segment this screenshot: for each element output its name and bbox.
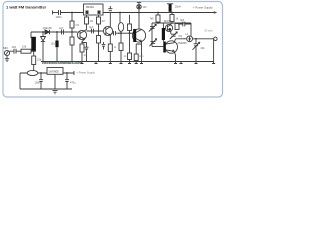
wire top supply rail (103, 12, 215, 14)
wire mic to C6 (10, 50, 14, 52)
wire PSU top rail (20, 72, 74, 74)
resistor R8 (119, 43, 123, 51)
resistor R6 (97, 36, 101, 44)
capacitor C1 (59, 10, 84, 15)
wire R10 to ground (129, 60, 131, 62)
wire Q5 collector output (174, 39, 187, 43)
oscillator pin 2 (98, 15, 100, 17)
inductor L2 (162, 28, 165, 40)
node rail junction 158 (157, 12, 159, 14)
wire R7 to ground (109, 52, 111, 62)
antenna terminal (214, 37, 217, 40)
capacitor C18 (65, 73, 69, 89)
resistor R2 (70, 37, 74, 45)
wire 121 down (120, 33, 122, 43)
resistor R1 (70, 21, 74, 28)
diode D1 (45, 30, 50, 34)
transistor Q5 (165, 41, 177, 53)
microphone MIC1 (4, 50, 9, 55)
svg-text:electronicsmaniacs.com: electronicsmaniacs.com (42, 61, 82, 65)
wire x98.5 vertical (98, 24, 100, 36)
ground stub 82 (81, 62, 84, 64)
node junction 72/12.5 (71, 12, 73, 14)
wire Q2 collector up to rail (109, 13, 111, 27)
wire main ground rail (41, 61, 214, 63)
inductor RFC L3 (169, 4, 172, 12)
coil L4 (187, 36, 193, 42)
capacitor C19 small stub (102, 42, 106, 50)
capacitor C9 on collector top (108, 6, 112, 11)
svg-text:7k5: 7k5 (150, 18, 155, 21)
resistor R14 (175, 24, 179, 30)
node B junction (33, 50, 35, 52)
svg-text:10uH: 10uH (175, 5, 181, 9)
svg-text:103: 103 (51, 43, 56, 46)
wire Q4 collector (170, 23, 172, 25)
svg-text:+ Power Supply: + Power Supply (193, 6, 213, 10)
trimmer C16 (193, 39, 200, 62)
node rail junction 139 (138, 12, 140, 14)
capacitor C2 (polarized dark) (31, 37, 36, 51)
wire Q5 base from L2 (162, 40, 164, 42)
wire audio line (31, 31, 78, 33)
resistor R5 (80, 44, 84, 52)
node rail junction 120 (119, 12, 121, 14)
resistor R3 (21, 49, 31, 53)
wire output line (193, 38, 214, 40)
wire R2 to ground rail (71, 45, 73, 62)
node junction 72/32 (71, 31, 73, 33)
wire R9 down (129, 31, 131, 54)
svg-text:40p: 40p (201, 47, 206, 50)
resistor R11 (134, 54, 138, 61)
resistor R12 (156, 15, 160, 22)
capacitor C8 (92, 29, 94, 34)
svg-text:1N4148: 1N4148 (43, 26, 53, 30)
svg-text:50 ohm: 50 ohm (205, 30, 213, 33)
wire from C1 down to R1 (71, 13, 73, 22)
wire drop from rail at 172 (171, 13, 173, 15)
wire Q2 emitter down (109, 35, 111, 44)
oscillator pin 1 (86, 15, 88, 17)
wire drop from rail at 158 (157, 13, 159, 16)
wire node B down (33, 51, 35, 56)
wire 152 down (151, 23, 153, 47)
trimmer C12 (149, 25, 156, 32)
svg-text:BF494: BF494 (86, 5, 94, 9)
wire top input stub (52, 12, 58, 14)
node junction 57/32 (56, 31, 58, 33)
wire 129 from trimmer down (129, 15, 131, 24)
resistor R16 (97, 17, 101, 24)
ground under mic (5, 56, 9, 62)
wire Q3 collector up to rail (138, 13, 140, 30)
feedthrough choke FB1 (137, 3, 141, 13)
ground stub 96 (95, 62, 98, 64)
node junction 43/32 (42, 31, 44, 33)
trimmer C13 (170, 32, 177, 39)
ground stub 121 (120, 62, 123, 64)
wire PSU ground rail (20, 88, 72, 90)
svg-text:BFR96: BFR96 (164, 20, 172, 23)
svg-text:10n: 10n (143, 6, 148, 9)
ground stub 175 (174, 62, 177, 64)
wire L1 down (118, 31, 121, 33)
ground stub 196 (195, 62, 198, 64)
inductor L1 (119, 13, 121, 23)
svg-text:10k: 10k (22, 45, 27, 49)
resistor R4 (32, 56, 36, 65)
capacitor C10 (112, 31, 118, 35)
resistor R13 (170, 15, 174, 22)
transistor Q4 (165, 24, 172, 31)
node junction 41/73 (40, 72, 42, 74)
node junction 196 (195, 38, 197, 40)
oscillator inner pads (86, 11, 89, 14)
wire R6 to ground (98, 43, 100, 62)
node junction 121 (120, 32, 122, 34)
node junction x98.5 (98, 30, 100, 32)
svg-text:1 watt FM transmitter: 1 watt FM transmitter (6, 4, 47, 9)
wire osc tank link (118, 32, 134, 34)
wire link y23 right (152, 22, 191, 24)
wire Q3 emitter branch (136, 44, 141, 54)
node junction 67/73 (66, 72, 68, 74)
wire R5 to ground (81, 52, 83, 62)
svg-text:+ Power Supply: + Power Supply (77, 70, 96, 74)
ground stub 213 (212, 62, 215, 64)
fuse F1 (27, 70, 38, 75)
ground stub 181 (180, 62, 183, 64)
wire R1 to node A (71, 28, 73, 37)
svg-text:470u: 470u (70, 82, 76, 85)
capacitor C4 electrolytic branch (56, 32, 58, 41)
capacitor C7 (85, 47, 89, 61)
wire Q4 emitter (170, 31, 172, 34)
wire R3 to node B (31, 50, 36, 52)
wire emitter bypass branch (82, 43, 87, 48)
wire R4 down to PSU rail (33, 65, 35, 72)
PSU plus terminal (73, 71, 75, 75)
ground stub 141 (140, 62, 143, 64)
transistor Q3 (132, 29, 145, 42)
svg-text:104: 104 (12, 45, 17, 49)
svg-text:4p7: 4p7 (89, 25, 94, 29)
transistor Q2 (103, 26, 112, 35)
svg-text:10n: 10n (139, 55, 144, 58)
wire 191 down to output line (190, 23, 192, 36)
capacitor C5 (62, 30, 64, 35)
capacitor C14 (178, 22, 191, 27)
node junction 158/23 (157, 22, 159, 24)
zener diode D2 to ground (41, 32, 46, 62)
wire Q5 emitter down (174, 51, 176, 61)
border frame (3, 2, 223, 98)
wire interstage link (87, 30, 104, 32)
capacitor C6 (14, 49, 21, 54)
wire Q1 emitter down (82, 39, 85, 44)
wire Q1 collector up (85, 24, 87, 31)
node junction 129 (129, 32, 131, 34)
wire L2 top (162, 23, 164, 28)
svg-text:100n: 100n (35, 82, 41, 85)
ground stub 110 (109, 62, 112, 64)
capacitor C17 (39, 73, 43, 89)
resistor R7 (108, 44, 112, 52)
regulator U1 (47, 68, 63, 75)
node junction 172/23 (171, 22, 173, 24)
wire Q3 emitter down (141, 42, 143, 62)
wire PSU left leg (19, 73, 21, 89)
transistor Q1 (77, 30, 86, 39)
svg-text:4u7: 4u7 (59, 26, 64, 30)
regulator U1 ground pin (54, 74, 56, 89)
node rail junction 172 (171, 12, 173, 14)
resistor R15 (85, 17, 89, 24)
arrowhead supply rail (214, 11, 218, 14)
resistor R9 (128, 24, 132, 31)
ground stub 135 (135, 62, 138, 64)
trimmer C15 on base (149, 39, 156, 46)
wire drop at x31 (30, 32, 32, 38)
oscillator module U2 (84, 4, 104, 15)
ground stub 129 (128, 62, 131, 64)
resistor R10 (128, 53, 132, 60)
svg-text:3p3: 3p3 (180, 19, 185, 22)
wire R8 to ground (120, 51, 122, 62)
svg-text:MIC: MIC (3, 46, 8, 50)
wire Q5 base link left (152, 46, 163, 48)
svg-text:100n: 100n (56, 15, 63, 19)
ground symbol PSU (52, 91, 57, 94)
wire antenna drop (213, 39, 215, 62)
node input terminal (52, 11, 54, 15)
svg-text:2N3866: 2N3866 (178, 41, 188, 45)
svg-text:LM7805: LM7805 (49, 69, 60, 73)
